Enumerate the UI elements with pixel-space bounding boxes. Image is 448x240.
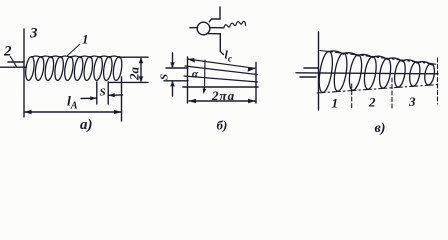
- one-turn symbol: wire to squiggle: [210, 27, 224, 29]
- svg-text:б): б): [217, 118, 228, 133]
- svg-text:3: 3: [29, 26, 38, 42]
- one-turn symbol: wire going down with hook: [208, 34, 224, 55]
- section divider 1-2 (dashed): [351, 84, 353, 109]
- dimension lc line with arrows: [188, 59, 256, 68]
- base line (circumference): [183, 86, 258, 88]
- right extension line: [255, 63, 257, 104]
- svg-text:1: 1: [82, 32, 89, 47]
- svg-text:в): в): [375, 121, 386, 135]
- right end divider (dashed): [437, 58, 439, 104]
- svg-text:а): а): [80, 117, 93, 133]
- svg-text:3: 3: [408, 94, 416, 109]
- svg-text:S: S: [100, 87, 106, 99]
- one-turn symbol: wire from above: [209, 7, 220, 22]
- dimension 2a bottom extension line: [109, 81, 149, 83]
- dimension 2pi-a line with arrows: [189, 100, 255, 102]
- svg-text:2πa: 2πa: [211, 88, 235, 103]
- dimension 2a top extension line: [119, 56, 148, 58]
- dimension 2a line with arrows: [140, 59, 142, 82]
- section divider 2-3 (dashed): [391, 78, 393, 109]
- feeder 2 : three-wire feed lines: [8, 61, 24, 63]
- hypotenuse (unrolled turn): [185, 66, 258, 75]
- angle alpha marker with arrow: [204, 60, 207, 89]
- lA right extension line: [121, 77, 123, 121]
- pitch dimension lines and arrows: [81, 97, 96, 99]
- top envelope (dash-dot cone line): [320, 51, 438, 65]
- one-turn symbol: entry wire: [190, 27, 198, 29]
- screen (ground plane) 3 : vertical line, also lA left extension: [23, 29, 25, 117]
- bottom envelope (dash-dot cone line): [317, 85, 439, 94]
- svg-text:1: 1: [332, 96, 339, 111]
- helix 1 : coil of 10 turns: [24, 56, 123, 81]
- S extension lines: [166, 67, 188, 69]
- svg-text:2a: 2a: [127, 67, 142, 82]
- svg-text:α: α: [192, 68, 199, 80]
- axis / centre conductor through helix: [296, 73, 438, 74]
- screen (ground plane): [318, 32, 320, 110]
- dimension lA line with arrows: [25, 111, 122, 113]
- svg-text:lА: lА: [67, 95, 78, 112]
- leader for label 2: [10, 57, 16, 67]
- left extension line: [187, 57, 189, 103]
- svg-text:lc: lc: [225, 48, 233, 65]
- pitch dimension ticks: [96, 82, 98, 104]
- one-turn symbol: rest of helix squiggle: [224, 21, 246, 28]
- svg-text:S: S: [159, 74, 171, 80]
- dimension S (pitch) arrows outside: [172, 53, 174, 67]
- svg-text:2: 2: [368, 95, 376, 110]
- one-turn symbol: circle (single turn face view): [197, 22, 210, 35]
- tapered helix coil: [317, 50, 436, 93]
- second turn line: [184, 76, 258, 82]
- feeder three-wire lines: [304, 67, 318, 69]
